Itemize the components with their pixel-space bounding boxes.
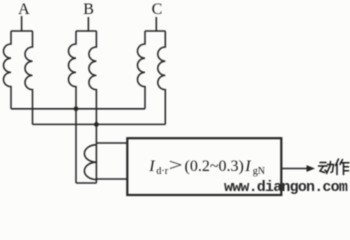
svg-text:C: C bbox=[152, 1, 163, 18]
svg-text:>: > bbox=[169, 155, 183, 174]
svg-text:A: A bbox=[18, 1, 30, 18]
svg-text:I: I bbox=[148, 158, 155, 175]
svg-text:(0.2~0.3): (0.2~0.3) bbox=[185, 158, 244, 175]
svg-text:www.diangon.com: www.diangon.com bbox=[224, 179, 348, 196]
svg-text:gN: gN bbox=[253, 166, 265, 177]
svg-text:B: B bbox=[83, 1, 94, 18]
svg-text:d·r: d·r bbox=[156, 166, 168, 177]
svg-text:I: I bbox=[244, 158, 251, 175]
